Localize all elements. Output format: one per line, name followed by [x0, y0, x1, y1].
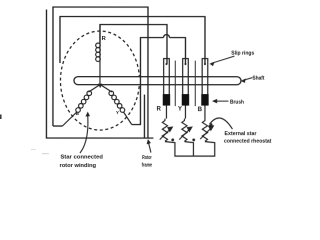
svg-text:Rotor: Rotor [142, 155, 152, 161]
svg-text:Slip rings: Slip rings [231, 50, 254, 56]
svg-text:Shaft: Shaft [252, 76, 264, 82]
svg-text:Y: Y [116, 110, 119, 115]
svg-text:frame: frame [142, 163, 153, 169]
svg-text:connected rheostat: connected rheostat [224, 139, 272, 145]
svg-text:rotor winding: rotor winding [60, 163, 97, 169]
svg-text:Star connected: Star connected [60, 155, 103, 161]
svg-text:R: R [157, 106, 162, 112]
svg-text:External star: External star [224, 131, 257, 137]
svg-text:B: B [198, 107, 203, 113]
svg-text:Brush: Brush [230, 100, 244, 106]
svg-text:Y: Y [178, 106, 182, 112]
